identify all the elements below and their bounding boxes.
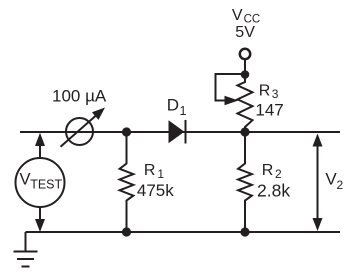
svg-text:R: R (144, 162, 156, 179)
svg-text:R: R (262, 162, 274, 179)
svg-text:D: D (167, 96, 179, 115)
svg-text:R: R (259, 83, 271, 100)
svg-text:TEST: TEST (30, 177, 62, 191)
svg-text:2.8k: 2.8k (257, 180, 290, 200)
svg-text:147: 147 (255, 101, 283, 120)
svg-text:2: 2 (337, 178, 344, 192)
svg-text:1: 1 (157, 167, 164, 181)
svg-text:100 µA: 100 µA (52, 86, 107, 105)
svg-text:V: V (20, 171, 31, 189)
svg-text:475k: 475k (137, 181, 174, 200)
svg-text:1: 1 (180, 104, 187, 118)
svg-text:3: 3 (272, 87, 279, 101)
svg-text:5V: 5V (235, 24, 255, 41)
svg-text:V: V (232, 7, 243, 24)
svg-text:2: 2 (275, 167, 282, 181)
